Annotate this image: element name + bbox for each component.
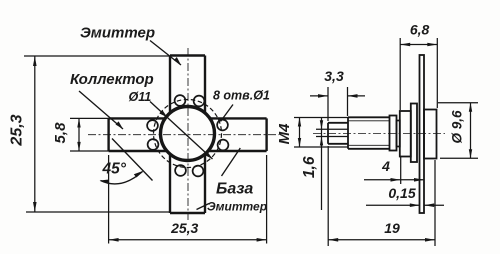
node flange disc 2 bbox=[411, 104, 417, 163]
svg-text:Эмиттер: Эмиттер bbox=[80, 25, 155, 42]
node arrow dim 1,6 lower bbox=[320, 137, 323, 146]
node hole 2 bbox=[194, 96, 205, 107]
node arrow dim M4 up bbox=[298, 118, 301, 127]
node arrow 45 arc right bbox=[134, 171, 144, 178]
node arrow dim 3,3 left-pointing bbox=[348, 94, 358, 98]
node arrow dim D9,6 down bbox=[469, 149, 472, 158]
node centerline vertical (left view) bbox=[187, 48, 189, 220]
svg-text:М4: М4 bbox=[276, 123, 293, 144]
wire dim 25,3 bottom extension left bbox=[108, 155, 110, 244]
wire dim 6,8 extension right bbox=[436, 38, 438, 108]
node hole 4 bbox=[148, 139, 159, 150]
wire dim 25,3 left extension top bbox=[24, 55, 170, 57]
node arrow dim 3,3 right-pointing bbox=[318, 94, 328, 98]
wire leader collector bbox=[79, 91, 123, 129]
wire thread shank outline bbox=[348, 117, 390, 149]
node flange disc 3 bbox=[424, 110, 437, 159]
wire dim 5,8 line bbox=[78, 118, 80, 151]
node hole 3 bbox=[147, 120, 158, 131]
wire dim 6,8 line bbox=[400, 44, 437, 46]
svg-text:4: 4 bbox=[381, 158, 390, 174]
node arrow dim 25,3 left up bbox=[33, 56, 37, 66]
node arrow dim 19 right bbox=[425, 238, 435, 242]
node neck ring bbox=[397, 121, 400, 147]
node flange disc 1 bbox=[400, 111, 411, 157]
wire dim 6,8 extension left bbox=[399, 38, 401, 110]
wire leader emitter bottom bbox=[197, 204, 210, 210]
svg-text:Ø 9,6: Ø 9,6 bbox=[450, 110, 465, 144]
node arrow leader D11 on circle bbox=[160, 110, 168, 117]
node centerline horizontal (left view) bbox=[88, 134, 279, 136]
svg-text:19: 19 bbox=[384, 220, 400, 236]
node centerline horizontal (right view) bbox=[313, 133, 445, 135]
svg-text:5,8: 5,8 bbox=[52, 122, 69, 144]
wire thread minor lines bbox=[348, 120, 390, 122]
wire leader emitter top bbox=[150, 41, 181, 66]
svg-text:25,3: 25,3 bbox=[170, 220, 198, 236]
wire leader 8 holes bbox=[221, 105, 234, 122]
wire dim 5,8 extension bottom bbox=[70, 150, 109, 152]
wire dim 25,3 left extension bottom bbox=[26, 211, 170, 213]
node arrow leader emitter top bbox=[174, 57, 181, 65]
wire dim 4 extension bbox=[400, 157, 402, 184]
wire dim M4 line bbox=[299, 118, 301, 148]
svg-text:25,3: 25,3 bbox=[9, 114, 26, 146]
wire dim 19 extension left bbox=[327, 146, 329, 246]
node arrow 45 arc left bbox=[100, 180, 110, 184]
wire dim 3,3 extension right bbox=[347, 87, 349, 116]
wire dim 3,3 line bbox=[310, 95, 328, 97]
svg-text:45°: 45° bbox=[102, 161, 127, 178]
node arrow dim 4 second bbox=[414, 178, 424, 182]
wire dim M4 extension top bbox=[294, 117, 348, 119]
node hole 7 bbox=[175, 165, 186, 176]
wire dim 1,6 line bbox=[321, 117, 323, 210]
wire leader base bbox=[222, 148, 241, 176]
node arrow dim D9,6 up bbox=[469, 103, 472, 112]
wire leader D11 diagonal bbox=[150, 102, 213, 160]
wire dim 25,3 bottom line bbox=[109, 239, 267, 241]
node arrow dim 25,3 bottom right bbox=[257, 238, 267, 242]
wire dim M4 extension bottom bbox=[294, 146, 348, 148]
wire base lead right outline bbox=[208, 118, 267, 151]
node arrow dim 6,8 right bbox=[427, 43, 437, 47]
wire emitter lead bottom outline bbox=[170, 154, 205, 213]
wire dim D9,6 line bbox=[470, 103, 472, 159]
svg-text:Коллектор: Коллектор bbox=[70, 71, 154, 88]
wire stud tip outline bbox=[328, 123, 348, 144]
node arrow dim 1,6 upper bbox=[320, 120, 323, 129]
node arrow dim M4 down bbox=[298, 138, 301, 147]
wire dim 19 line bbox=[328, 239, 435, 241]
node arrow dim 0,15 right bbox=[424, 203, 434, 207]
wire collector lead left outline bbox=[109, 118, 167, 151]
wire dim 5,8 extension top bbox=[70, 117, 109, 119]
node arrow dim 25,3 left down bbox=[33, 202, 37, 212]
svg-text:6,8: 6,8 bbox=[410, 22, 430, 38]
node collar bbox=[390, 116, 397, 151]
wire dim 0,15 line right bbox=[424, 204, 444, 206]
wire dim 4 line bbox=[364, 179, 424, 181]
node hole 1 bbox=[175, 95, 186, 106]
wire emitter lead top outline bbox=[170, 56, 205, 114]
node arrow dim 25,3 bottom left bbox=[109, 238, 119, 242]
svg-text:3,3: 3,3 bbox=[324, 68, 344, 84]
wire dim 3,3 extension left bbox=[327, 87, 329, 121]
arrows bbox=[33, 43, 472, 242]
node arrow dim 6,8 left bbox=[400, 43, 410, 47]
node arrow dim 0,15 left bbox=[410, 203, 420, 207]
svg-text:1,6: 1,6 bbox=[301, 156, 318, 178]
node arrow dim 5,8 down bbox=[77, 142, 80, 151]
svg-text:Ø11: Ø11 bbox=[129, 90, 152, 104]
wire dim D9,6 extension bottom bbox=[440, 157, 478, 159]
node arrow dim 4 first bbox=[391, 178, 401, 182]
svg-text:8 отв.Ø1: 8 отв.Ø1 bbox=[213, 89, 270, 103]
node arrow dim 19 left bbox=[328, 238, 338, 242]
wire 45 deg construction line bbox=[112, 139, 153, 181]
wire dim 0,15 line left bbox=[366, 204, 420, 206]
node arrow leader D11 end bbox=[205, 152, 213, 159]
wire dim 25,3 bottom extension right bbox=[266, 155, 268, 244]
svg-text:0,15: 0,15 bbox=[388, 185, 415, 201]
node cap circle D11 bbox=[161, 107, 215, 161]
node hole 6 bbox=[218, 140, 229, 151]
node arrow dim 5,8 up bbox=[77, 118, 80, 127]
wire dim 25,3 left line bbox=[34, 56, 36, 212]
svg-text:База: База bbox=[216, 181, 253, 198]
wire stud tip core lines bbox=[316, 128, 348, 130]
node hole 5 bbox=[217, 120, 228, 131]
wire dim D9,6 extension top bbox=[438, 102, 478, 104]
node hole 8 bbox=[193, 166, 204, 177]
node dashed bolt circle bbox=[154, 100, 222, 168]
wire dim 19 extension right bbox=[434, 160, 436, 246]
node lead plate 0,15 bbox=[420, 55, 425, 213]
svg-text:Эмиттер: Эмиттер bbox=[207, 200, 267, 214]
wire 45 deg arc bbox=[101, 172, 143, 184]
node arrow leader collector bbox=[116, 121, 124, 129]
